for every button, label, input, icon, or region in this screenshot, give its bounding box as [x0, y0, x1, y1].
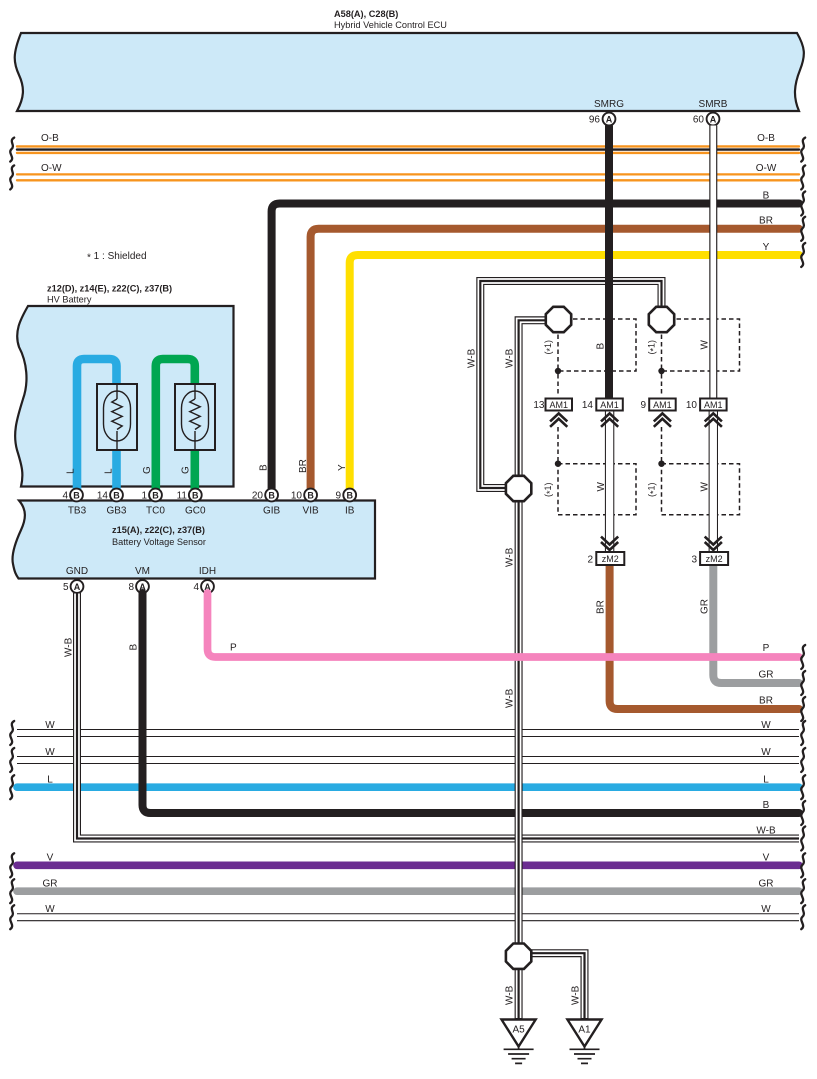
battery cell symbol 1 center line and resistor zigzag — [116, 384, 118, 450]
wire break symbol V left — [10, 853, 14, 877]
connector AM1 pin 9 box — [649, 399, 676, 411]
svg-text:W-B: W-B — [505, 985, 516, 1005]
pin 8 connector circle A — [136, 580, 149, 593]
HV Battery block — [15, 306, 233, 487]
ground A5 triangle — [502, 1020, 536, 1047]
svg-text:B: B — [152, 490, 159, 500]
svg-text:GB3: GB3 — [106, 506, 126, 517]
wire break symbol BR right — [801, 697, 805, 721]
svg-text:BR: BR — [298, 459, 309, 473]
svg-text:BR: BR — [759, 695, 773, 706]
svg-text:P: P — [230, 643, 237, 654]
svg-text:1: 1 — [141, 491, 147, 502]
svg-text:W: W — [700, 340, 711, 350]
svg-text:B: B — [192, 490, 199, 500]
dashed shield drain upper-right segments — [661, 374, 663, 396]
wire break symbol L right — [801, 775, 805, 799]
svg-text:W-B: W-B — [505, 348, 516, 368]
wire break symbol O-B left — [10, 138, 14, 162]
svg-text:W-B: W-B — [756, 825, 776, 836]
svg-text:A1: A1 — [578, 1025, 591, 1036]
svg-text:B: B — [113, 490, 120, 500]
svg-text:B: B — [307, 490, 314, 500]
svg-text:3: 3 — [691, 555, 697, 566]
svg-text:VIB: VIB — [303, 506, 319, 517]
wire GR from zM2 3 down and right — [713, 566, 799, 683]
svg-text:8: 8 — [128, 582, 134, 593]
svg-text:A58(A), C28(B): A58(A), C28(B) — [334, 9, 398, 19]
pin 20 connector circle B — [265, 489, 278, 502]
wire W band 3 — [15, 913, 801, 921]
svg-text:20: 20 — [252, 491, 264, 502]
wire break symbol B band right — [801, 801, 805, 825]
wire W band 1 — [15, 729, 801, 737]
shield octagon junction J4 — [506, 944, 531, 969]
wire G loop inside HV battery (green) — [156, 359, 195, 490]
connector AM1 pin 14 box — [596, 399, 623, 411]
battery cell symbol 2 outer box — [175, 384, 215, 450]
junction dot lower-left box — [555, 461, 561, 467]
svg-text:GND: GND — [66, 566, 88, 577]
svg-text:B: B — [129, 644, 140, 651]
wire break symbol Y right — [801, 243, 805, 267]
chevron arrows below AM1 14 — [601, 413, 618, 426]
battery cell symbol 1 outer box — [97, 384, 137, 450]
shield dashed box upper-right (*1) around W wire — [662, 319, 740, 371]
pin 1 connector circle B — [149, 489, 162, 502]
svg-text:zM2: zM2 — [602, 554, 619, 564]
svg-text:B: B — [346, 490, 353, 500]
svg-text:O-W: O-W — [756, 163, 777, 174]
pin 4 connector circle B — [70, 489, 83, 502]
svg-text:13: 13 — [533, 400, 545, 411]
wire break symbol W-B band right — [801, 827, 805, 851]
svg-text:Hybrid Vehicle Control ECU: Hybrid Vehicle Control ECU — [334, 20, 447, 30]
wire break symbol L left — [10, 775, 14, 799]
wire break symbol O-B right — [801, 138, 805, 162]
shield dashed box lower-right (*1) around W wire — [662, 464, 740, 515]
svg-text:B: B — [596, 343, 607, 350]
wire W-B from GND pin down and right to band — [77, 593, 799, 839]
svg-text:L: L — [104, 468, 115, 474]
wire P from IDH pin down and right (pink) — [208, 593, 800, 657]
svg-text:14: 14 — [582, 400, 594, 411]
wire break symbol O-W left — [10, 165, 14, 189]
chevron arrows above zM2 2 — [601, 537, 618, 550]
svg-text:A5: A5 — [512, 1025, 525, 1036]
svg-text:IDH: IDH — [199, 566, 216, 577]
dashed shield drain upper-left segments — [557, 374, 559, 396]
svg-text:4: 4 — [62, 491, 68, 502]
wire break symbol B right — [801, 192, 805, 216]
wire W-B long vertical (octagon J3 down to octagon J4) — [515, 500, 523, 944]
shield octagon junction J3 — [506, 476, 531, 501]
svg-text:11: 11 — [177, 491, 188, 502]
svg-text:60: 60 — [693, 115, 705, 126]
wire break symbol W1 right — [801, 721, 805, 745]
svg-text:GR: GR — [700, 599, 711, 614]
svg-text:z12(D), z14(E), z22(C), z37(B): z12(D), z14(E), z22(C), z37(B) — [47, 284, 172, 294]
wire W SMRB vertical (ECU pin 60 to AM1 10) — [709, 126, 717, 399]
svg-text:SMRB: SMRB — [699, 99, 728, 110]
svg-text:W-B: W-B — [505, 547, 516, 567]
pin 9 connector circle B — [343, 489, 356, 502]
pin 11 connector circle B — [189, 489, 202, 502]
svg-text:GC0: GC0 — [185, 506, 206, 517]
svg-text:14: 14 — [97, 491, 109, 502]
wire W-B shield drain inner (octagon J3 to upper-left octagon) — [519, 320, 546, 476]
svg-text:W-B: W-B — [505, 688, 516, 708]
svg-text:96: 96 — [589, 115, 601, 126]
svg-text:TB3: TB3 — [68, 506, 87, 517]
wire break symbol W2 right — [801, 748, 805, 772]
wire break symbol GR right — [801, 671, 805, 695]
wire W from AM1 14 to zM2 2 — [605, 410, 614, 552]
wire W-B from octagon J4 right and down to ground A1 — [530, 953, 585, 1019]
svg-text:4: 4 — [193, 582, 199, 593]
svg-text:A: A — [710, 114, 717, 124]
svg-text:O-W: O-W — [41, 163, 62, 174]
svg-text:9: 9 — [335, 491, 341, 502]
svg-text:2: 2 — [587, 555, 593, 566]
pin 4 IDH connector circle A — [201, 580, 214, 593]
wire GR band (gray) — [17, 887, 799, 895]
chevron arrows below AM1 10 — [705, 413, 722, 426]
wire L band (cyan) — [17, 783, 799, 791]
junction dot lower-right box — [658, 461, 664, 467]
wire W-B from octagon J4 down to ground A5 — [515, 960, 523, 1019]
svg-text:GIB: GIB — [263, 506, 281, 517]
svg-text:P: P — [763, 643, 770, 654]
wire break symbol P right — [801, 645, 805, 669]
wire break symbol BR right — [801, 217, 805, 241]
pin 14 connector circle B — [110, 489, 123, 502]
shield dashed box upper-left (*1) around B wire — [558, 319, 636, 371]
shield dashed box lower-left (*1) around W wire — [558, 464, 636, 515]
svg-text:9: 9 — [640, 400, 646, 411]
svg-text:* 1 : Shielded: * 1 : Shielded — [87, 251, 147, 264]
svg-text:HV Battery: HV Battery — [47, 295, 92, 305]
Battery Voltage Sensor block — [12, 501, 375, 579]
connector zM2 pin 3 box — [700, 552, 728, 565]
ground A5 hatch lines — [504, 1049, 534, 1063]
junction dot upper-left box — [555, 368, 561, 374]
wire W from AM1 10 to zM2 3 — [709, 410, 718, 552]
battery cell symbol 2 center line and resistor zigzag — [194, 384, 196, 450]
wire break symbol V right — [801, 853, 805, 877]
svg-text:Battery Voltage Sensor: Battery Voltage Sensor — [112, 537, 206, 547]
wire break symbol W3 right — [801, 905, 805, 929]
svg-text:W-B: W-B — [467, 348, 478, 368]
shield octagon upper-left — [546, 307, 571, 332]
svg-text:zM2: zM2 — [706, 554, 723, 564]
wire break symbol W2 left — [10, 748, 14, 772]
pin 10 connector circle B — [304, 489, 317, 502]
wire W band 2 — [15, 756, 801, 764]
connector zM2 pin 2 box — [596, 552, 624, 565]
svg-text:G: G — [142, 466, 153, 474]
svg-text:z15(A), z22(C), z37(B): z15(A), z22(C), z37(B) — [112, 525, 205, 535]
op-amp U1: Hybrid Vehicle Control ECU block — [15, 33, 804, 111]
svg-text:10: 10 — [291, 491, 303, 502]
svg-text:O-B: O-B — [41, 133, 59, 144]
chevron arrows above zM2 3 — [705, 537, 722, 550]
wire break symbol W1 left — [10, 721, 14, 745]
battery cell symbol 2 stadium — [182, 391, 209, 441]
wire break symbol W3 left — [10, 905, 14, 929]
ground A1 hatch lines — [570, 1049, 600, 1063]
svg-text:B: B — [73, 490, 80, 500]
wire W-B shield drain outer loop (octagon J3 to upper-right octagon) — [480, 281, 661, 488]
pin 96 connector circle A — [603, 113, 616, 126]
svg-text:5: 5 — [63, 582, 69, 593]
svg-text:AM1: AM1 — [704, 400, 723, 410]
svg-text:B: B — [268, 490, 275, 500]
svg-text:W-B: W-B — [571, 985, 582, 1005]
pin 60 connector circle A — [707, 113, 720, 126]
svg-text:A: A — [606, 114, 613, 124]
wire break symbol O-W right — [801, 165, 805, 189]
wire break symbol GR right — [801, 879, 805, 903]
shield octagon upper-right — [649, 307, 674, 332]
wire O-B (orange-black-orange) — [17, 146, 799, 153]
svg-text:TC0: TC0 — [146, 506, 165, 517]
wire BR from zM2 2 down and right — [610, 566, 799, 709]
ground A1 triangle — [567, 1020, 601, 1047]
svg-text:AM1: AM1 — [549, 400, 568, 410]
pin 5 connector circle A — [71, 580, 84, 593]
wire Y from IB pin up and right — [350, 255, 799, 490]
svg-text:O-B: O-B — [757, 133, 775, 144]
wire break symbol GR left — [10, 879, 14, 903]
junction dot upper-right box — [658, 368, 664, 374]
svg-text:AM1: AM1 — [600, 400, 619, 410]
wire O-W (orange-white-orange) — [17, 174, 799, 180]
wire L loop inside HV battery (cyan) — [77, 359, 117, 490]
wire B from GIB pin up and right — [272, 204, 799, 491]
connector AM1 pin 13 box — [546, 399, 573, 411]
battery cell symbol 1 stadium — [104, 391, 131, 441]
wire B from VM pin down and right to band — [143, 593, 800, 813]
svg-text:AM1: AM1 — [653, 400, 672, 410]
svg-text:G: G — [181, 466, 192, 474]
wire B SMRG vertical (ECU pin 96 to AM1 14) — [605, 126, 613, 399]
svg-text:A: A — [74, 582, 81, 592]
svg-text:10: 10 — [686, 400, 698, 411]
svg-text:B: B — [259, 464, 270, 471]
svg-text:B: B — [763, 800, 770, 811]
chevron arrows below AM1 9 — [654, 413, 671, 426]
svg-text:SMRG: SMRG — [594, 99, 624, 110]
svg-text:IB: IB — [345, 506, 355, 517]
svg-text:W-B: W-B — [64, 637, 75, 657]
connector AM1 pin 10 box — [700, 399, 727, 411]
svg-text:L: L — [66, 468, 77, 474]
chevron arrows below AM1 13 — [550, 413, 567, 426]
wire BR from VIB pin up and right — [311, 229, 799, 490]
svg-text:VM: VM — [135, 566, 150, 577]
svg-text:BR: BR — [596, 600, 607, 614]
svg-text:GR: GR — [759, 669, 774, 680]
svg-text:Y: Y — [337, 464, 348, 471]
wire V band (violet) — [17, 861, 799, 869]
